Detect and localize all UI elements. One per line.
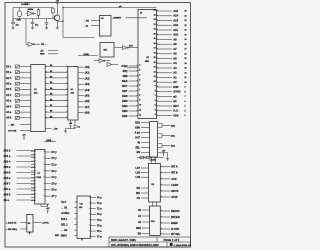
svg-text:(D2): (D2) bbox=[171, 145, 175, 147]
wire wire U8 to U10 a bbox=[152, 202, 154, 206]
inverter U1B bbox=[26, 42, 40, 46]
svg-text:12: 12 bbox=[154, 71, 156, 73]
svg-text:A8: A8 bbox=[173, 42, 177, 46]
svg-text:6: 6 bbox=[185, 101, 186, 103]
svg-text:22: 22 bbox=[185, 25, 187, 27]
svg-text:A1 2: A1 2 bbox=[6, 94, 12, 97]
buffer U4 left pins bbox=[135, 122, 150, 155]
svg-text:17: 17 bbox=[185, 49, 187, 51]
svg-text:A14: A14 bbox=[173, 14, 178, 18]
svg-text:AD8 5: AD8 5 bbox=[4, 193, 11, 196]
svg-text:← 5M̅: ← 5M̅ bbox=[8, 123, 14, 126]
svg-text:DB0: DB0 bbox=[135, 126, 140, 129]
svg-text:B1: B1 bbox=[50, 71, 52, 73]
svg-text:A2: A2 bbox=[173, 71, 177, 75]
capacitor C3 bbox=[45, 19, 49, 26]
svg-text:DISK LEGACY / 1984: DISK LEGACY / 1984 bbox=[111, 239, 136, 242]
svg-text:13: 13 bbox=[185, 68, 187, 70]
svg-text:18: 18 bbox=[185, 44, 187, 46]
svg-text:AD1 a: AD1 a bbox=[4, 155, 11, 158]
svg-text:20: 20 bbox=[154, 33, 156, 35]
svg-text:13: 13 bbox=[154, 67, 156, 69]
svg-text:STEP: STEP bbox=[171, 196, 178, 199]
svg-text:A6: A6 bbox=[173, 52, 177, 56]
wire U9 in row1 bbox=[21, 222, 27, 224]
svg-text:EN: EN bbox=[137, 151, 141, 154]
svg-text:(14M): (14M) bbox=[84, 53, 90, 56]
CPU U2 bbox=[138, 10, 157, 119]
decoder U11 right output pins bbox=[90, 196, 103, 238]
svg-text:(7M): (7M) bbox=[17, 20, 21, 22]
svg-text:A2 a: A2 a bbox=[6, 100, 12, 103]
ground Q1 emitter bbox=[56, 23, 59, 30]
svg-text:DB5: DB5 bbox=[122, 99, 128, 103]
svg-text:2: 2 bbox=[139, 65, 140, 67]
svg-text:20: 20 bbox=[185, 34, 187, 36]
input buffer cell 9 bbox=[15, 116, 19, 119]
buffer U6 74ALS244 bbox=[68, 66, 78, 120]
svg-text:← G1: ← G1 bbox=[61, 207, 68, 210]
svg-text:LD5: LD5 bbox=[135, 176, 140, 179]
wire U7 gnd wire bbox=[41, 204, 48, 207]
ground U9 bbox=[28, 232, 31, 234]
svg-text:Y3 p: Y3 p bbox=[97, 213, 103, 216]
svg-text:← G2: ← G2 bbox=[61, 229, 68, 232]
wire wire U8 top2 bbox=[155, 158, 157, 164]
svg-text:A15: A15 bbox=[173, 9, 178, 13]
svg-text:11: 11 bbox=[185, 77, 187, 79]
svg-text:6: 6 bbox=[155, 100, 156, 102]
svg-text:A4: A4 bbox=[173, 61, 177, 65]
connector J1 bbox=[100, 16, 112, 37]
wire U9 gnd pin bbox=[29, 232, 31, 234]
svg-text:IN: IN bbox=[138, 141, 141, 144]
wire U6 gnd wire bbox=[66, 127, 76, 128]
wire ctl row2 bbox=[20, 130, 31, 132]
decoder U10 left pins bbox=[136, 209, 149, 236]
svg-text:←RS: ←RS bbox=[84, 21, 89, 23]
svg-text:B9: B9 bbox=[50, 116, 52, 118]
wire U9 in row2 bbox=[21, 228, 27, 230]
svg-text:A13: A13 bbox=[173, 18, 178, 22]
svg-text:© 1984 APEX CO: © 1984 APEX CO bbox=[174, 244, 192, 247]
svg-text:DB1: DB1 bbox=[135, 122, 140, 125]
svg-text:D0 1: D0 1 bbox=[6, 65, 12, 68]
svg-text:+ DATA IN: + DATA IN bbox=[6, 221, 17, 224]
svg-text:LD7: LD7 bbox=[135, 167, 140, 170]
svg-text:B3: B3 bbox=[50, 82, 52, 84]
svg-text:A3 4: A3 4 bbox=[6, 105, 12, 108]
power +5V pullups bbox=[162, 151, 166, 157]
svg-text:U11: U11 bbox=[80, 204, 83, 206]
svg-text:22: 22 bbox=[154, 24, 156, 26]
svg-text:RES: RES bbox=[122, 79, 128, 83]
wire inverter U1B input vertical bbox=[25, 19, 27, 45]
wire input row 4 bbox=[20, 88, 31, 90]
svg-text:7: 7 bbox=[185, 96, 186, 98]
ground U6 bbox=[64, 129, 67, 133]
svg-text:18: 18 bbox=[154, 43, 156, 45]
svg-text:B5: B5 bbox=[50, 94, 52, 96]
svg-text:GND: GND bbox=[40, 54, 45, 56]
wire osc mid bbox=[13, 18, 44, 20]
svg-text:Y0 a: Y0 a bbox=[97, 196, 103, 199]
svg-text:DB2: DB2 bbox=[122, 114, 128, 118]
wire osc top bbox=[13, 7, 53, 9]
wire wire sync out bbox=[127, 67, 138, 69]
trimmer capacitor CT1 bbox=[26, 2, 30, 5]
svg-text:(A6): (A6) bbox=[85, 100, 90, 103]
svg-text:A φ2: A φ2 bbox=[135, 131, 141, 134]
ROM U7 left pin stubs bbox=[31, 150, 36, 201]
wire U5 enable out bbox=[45, 128, 51, 130]
svg-text:6502: 6502 bbox=[145, 61, 149, 63]
wire wire pullup row bbox=[137, 157, 164, 159]
wire wire U4 gnd bbox=[158, 153, 168, 156]
wire Q1 emitter tap bbox=[57, 20, 63, 22]
resistor R4 pullup bbox=[146, 156, 150, 159]
gate U6B bbox=[94, 59, 110, 63]
svg-text:9: 9 bbox=[139, 100, 140, 102]
svg-text:(WT)EN: (WT)EN bbox=[171, 216, 180, 219]
svg-text:7: 7 bbox=[155, 95, 156, 97]
svg-text:D3 a: D3 a bbox=[6, 83, 12, 86]
svg-text:RD: RD bbox=[137, 187, 141, 190]
inverter U1A bbox=[26, 11, 36, 16]
ROM U7 bbox=[35, 150, 45, 205]
svg-text:VSS: VSS bbox=[173, 113, 179, 117]
svg-text:3: 3 bbox=[139, 70, 140, 72]
svg-text:19: 19 bbox=[185, 39, 187, 41]
svg-text:24: 24 bbox=[154, 13, 156, 16]
svg-text:ROM: ROM bbox=[37, 177, 42, 179]
svg-text:4: 4 bbox=[155, 108, 156, 111]
svg-text:D5 y: D5 y bbox=[52, 182, 58, 185]
svg-text:R/W: R/W bbox=[173, 85, 179, 89]
input buffer cell 8 bbox=[15, 111, 19, 114]
resistor R1 bbox=[37, 8, 40, 19]
svg-text:B8: B8 bbox=[50, 111, 52, 113]
svg-text:138: 138 bbox=[79, 207, 82, 209]
wire input row 9 bbox=[20, 117, 31, 119]
svg-text:19: 19 bbox=[154, 38, 156, 40]
svg-text:CE a: CE a bbox=[4, 199, 10, 202]
wire input row 7 bbox=[20, 105, 31, 107]
gate U6C bbox=[107, 62, 118, 66]
svg-text:A11: A11 bbox=[173, 28, 178, 32]
wire input row 1 bbox=[20, 71, 31, 73]
svg-text:SEL: SEL bbox=[135, 146, 140, 149]
svg-text:21: 21 bbox=[185, 30, 187, 32]
svg-text:φ2: φ2 bbox=[173, 94, 177, 98]
junction dot 2 bbox=[62, 21, 63, 22]
buffer U5 74LS244 bbox=[31, 65, 45, 132]
wire clock line 7M to U2 bbox=[63, 7, 157, 9]
svg-text:A5: A5 bbox=[173, 56, 177, 60]
svg-text:WR: WR bbox=[136, 192, 140, 195]
CPU U2 left pins bbox=[122, 64, 141, 118]
svg-text:D3 y: D3 y bbox=[52, 170, 58, 173]
junction dot bbox=[62, 7, 63, 8]
svg-text:(A2): (A2) bbox=[85, 77, 90, 80]
svg-text:6: 6 bbox=[139, 85, 140, 87]
svg-text:U9: U9 bbox=[28, 223, 30, 225]
wire wire +RESET bbox=[126, 17, 148, 19]
input buffer cell 4 bbox=[15, 88, 19, 91]
svg-text:Y4 a: Y4 a bbox=[97, 219, 103, 222]
svg-text:REF →: REF → bbox=[55, 235, 62, 237]
svg-text:D4 y: D4 y bbox=[52, 176, 58, 179]
svg-text:S.O.: S.O. bbox=[173, 109, 179, 113]
svg-text:Y2 a: Y2 a bbox=[97, 208, 103, 211]
gate U9 bbox=[27, 214, 33, 232]
svg-text:4: 4 bbox=[185, 109, 186, 112]
timer U3 bbox=[100, 43, 114, 58]
svg-text:8: 8 bbox=[155, 90, 156, 92]
ROM U7 left labels and wires bbox=[4, 149, 35, 202]
wire input row 5 bbox=[20, 94, 31, 96]
wire osc left vertical bbox=[12, 8, 14, 23]
svg-text:NMI: NMI bbox=[123, 74, 128, 78]
svg-text:A5 6: A5 6 bbox=[6, 117, 12, 120]
svg-text:SYNC: SYNC bbox=[173, 90, 181, 94]
buffer U4 bbox=[150, 122, 158, 157]
CPU U2 right pins A15-A0 and control bbox=[154, 9, 187, 118]
svg-text:INT A: INT A bbox=[171, 166, 177, 169]
svg-text:AD5 a: AD5 a bbox=[4, 177, 11, 180]
wire osc left vert2 bbox=[12, 19, 14, 23]
capacitor C2 bbox=[31, 19, 35, 26]
svg-text:B2: B2 bbox=[50, 77, 52, 79]
svg-text:A3: A3 bbox=[173, 66, 177, 70]
input buffer cell 2 bbox=[15, 76, 19, 79]
svg-text:11: 11 bbox=[139, 110, 141, 112]
svg-text:8: 8 bbox=[139, 95, 140, 97]
svg-text:DB7: DB7 bbox=[122, 89, 128, 93]
svg-text:(A0): (A0) bbox=[85, 66, 90, 69]
wire base wire bbox=[44, 18, 55, 20]
svg-text:IRQ: IRQ bbox=[123, 69, 128, 73]
svg-text:B6: B6 bbox=[50, 99, 52, 101]
wire wire 7M drop bbox=[63, 8, 95, 38]
svg-text:A12: A12 bbox=[173, 23, 178, 27]
svg-text:SEL 2: SEL 2 bbox=[61, 223, 68, 226]
svg-text:IO STB: IO STB bbox=[171, 228, 179, 231]
power +5V U6 bbox=[69, 123, 73, 129]
wires U5 to U6 rows bbox=[45, 65, 68, 118]
svg-text:DB4: DB4 bbox=[122, 104, 128, 108]
svg-text:DM 5: DM 5 bbox=[61, 235, 67, 238]
svg-text:Y1 p: Y1 p bbox=[97, 202, 103, 205]
wire stub +WRITE bbox=[48, 50, 58, 52]
wire stub +READ bbox=[48, 53, 58, 55]
wire wire 14M2 line bbox=[44, 141, 56, 143]
resistor R3 pullup bbox=[140, 156, 144, 159]
wire input row 6 bbox=[20, 100, 31, 102]
svg-text:←IQ: ←IQ bbox=[84, 25, 89, 27]
wire U11 gnd stub bbox=[81, 238, 83, 240]
input buffer cell 1 bbox=[15, 71, 19, 74]
decoder U10 bbox=[150, 206, 161, 235]
wire wire U8 to U10 b bbox=[156, 202, 158, 206]
svg-text:D2 4: D2 4 bbox=[6, 77, 12, 80]
svg-text:5: 5 bbox=[139, 80, 140, 82]
svg-text:AD2 4: AD2 4 bbox=[4, 160, 11, 163]
svg-text:14: 14 bbox=[185, 62, 187, 65]
wire input row 0 bbox=[20, 66, 31, 68]
svg-text:AD7 a: AD7 a bbox=[4, 188, 11, 191]
svg-text:17: 17 bbox=[154, 48, 156, 50]
svg-text:B4: B4 bbox=[50, 87, 52, 90]
svg-text:10: 10 bbox=[185, 82, 187, 84]
input buffer cell 6 bbox=[15, 99, 19, 102]
svg-text:9: 9 bbox=[185, 87, 186, 89]
wire ctl row1 bbox=[20, 124, 31, 126]
latch U8 right pins bbox=[160, 166, 178, 199]
svg-text:5: 5 bbox=[185, 106, 186, 108]
svg-text:11: 11 bbox=[154, 76, 156, 78]
decoder U11 left pins bbox=[61, 201, 77, 238]
svg-text:Ya 5: Ya 5 bbox=[61, 201, 66, 204]
wire input row 2 bbox=[20, 77, 31, 79]
input labels column D0-A5 bbox=[6, 65, 12, 119]
svg-text:24: 24 bbox=[185, 14, 187, 17]
power +5V left bbox=[22, 134, 26, 140]
svg-text:D7 y: D7 y bbox=[52, 195, 58, 198]
svg-text:16: 16 bbox=[185, 53, 187, 55]
svg-text:DB6: DB6 bbox=[122, 94, 128, 98]
svg-text:D1 a: D1 a bbox=[6, 71, 12, 74]
transistor Q1 bbox=[54, 15, 60, 23]
svg-text:25: 25 bbox=[154, 10, 156, 12]
svg-text:EN: EN bbox=[138, 233, 142, 236]
svg-text:(A3): (A3) bbox=[85, 83, 90, 86]
svg-text:(14M) →: (14M) → bbox=[46, 139, 54, 142]
svg-text:A1: A1 bbox=[173, 75, 177, 79]
ground osc C1 bbox=[12, 26, 15, 29]
svg-text:CPU, BUFFERS, ROM & DECODER LO: CPU, BUFFERS, ROM & DECODER LOGIC bbox=[111, 244, 159, 247]
wire wire 14M label line bbox=[78, 55, 98, 57]
wire wire J1 down bbox=[100, 36, 102, 38]
svg-text:3: 3 bbox=[155, 114, 156, 116]
wire U9 out bbox=[33, 222, 42, 224]
ground U4 bbox=[166, 155, 169, 160]
resistor R5 base bbox=[52, 8, 55, 19]
svg-text:12: 12 bbox=[185, 72, 187, 74]
svg-text:INT B: INT B bbox=[171, 172, 178, 175]
power +5V U9 bbox=[46, 208, 50, 214]
input buffer cell 0 bbox=[15, 65, 19, 68]
decoder U11 74LS138 bbox=[77, 196, 91, 238]
buffer U4 right pin loops bbox=[158, 124, 170, 148]
svg-text:F.DRV: F.DRV bbox=[171, 184, 178, 187]
input buffer cell 3 bbox=[15, 82, 19, 85]
svg-text:25: 25 bbox=[185, 11, 187, 13]
svg-text:LD6: LD6 bbox=[135, 172, 140, 175]
gate U6A bbox=[114, 46, 138, 50]
svg-text:D6 y: D6 y bbox=[52, 189, 58, 192]
svg-text:A10: A10 bbox=[173, 33, 178, 37]
svg-text:(D0): (D0) bbox=[171, 125, 175, 127]
svg-text:CPU DB: CPU DB bbox=[8, 130, 17, 132]
svg-text:A4 a: A4 a bbox=[6, 111, 12, 114]
svg-text:10: 10 bbox=[154, 81, 156, 83]
svg-text:8: 8 bbox=[185, 91, 186, 93]
svg-text:AD4 5: AD4 5 bbox=[4, 171, 11, 174]
svg-text:AD3 a: AD3 a bbox=[4, 166, 11, 169]
svg-text:15: 15 bbox=[185, 58, 187, 60]
svg-text:AD0 2: AD0 2 bbox=[4, 149, 11, 152]
svg-text:12: 12 bbox=[139, 115, 141, 117]
svg-text:9: 9 bbox=[155, 86, 156, 88]
latch U8 left pins bbox=[135, 167, 148, 200]
svg-text:4: 4 bbox=[139, 74, 140, 77]
input buffer cell 7 bbox=[15, 105, 19, 108]
logo square bbox=[170, 243, 173, 246]
svg-text:23: 23 bbox=[154, 19, 156, 21]
capacitor C1 bbox=[11, 22, 15, 26]
svg-text:(A1): (A1) bbox=[85, 72, 90, 75]
svg-text:+5 MHz: +5 MHz bbox=[61, 212, 70, 215]
svg-text:WT SEL: WT SEL bbox=[171, 233, 181, 236]
svg-text:7: 7 bbox=[139, 90, 140, 92]
latch U8 bbox=[149, 163, 161, 202]
svg-text:23: 23 bbox=[185, 20, 187, 22]
svg-text:(D1): (D1) bbox=[171, 135, 175, 137]
svg-text:←EN: ←EN bbox=[53, 129, 58, 131]
svg-text:+RESET: +RESET bbox=[113, 18, 122, 20]
svg-text:PAGE 1 of 2: PAGE 1 of 2 bbox=[164, 238, 180, 242]
svg-text:(A4): (A4) bbox=[85, 89, 90, 92]
svg-text:A7: A7 bbox=[173, 47, 177, 51]
svg-text:15: 15 bbox=[154, 57, 156, 59]
svg-text:40: 40 bbox=[140, 12, 142, 15]
svg-text:OUT: OUT bbox=[135, 136, 141, 139]
svg-text:D1 y: D1 y bbox=[52, 157, 58, 160]
svg-text:74S04: 74S04 bbox=[28, 8, 34, 11]
svg-text:A9: A9 bbox=[173, 37, 177, 41]
svg-text:Y7 p: Y7 p bbox=[97, 236, 103, 239]
wire U6 vcc pin bbox=[70, 120, 72, 124]
ground U7 bbox=[46, 204, 49, 207]
svg-text:RDY: RDY bbox=[122, 84, 128, 88]
svg-text:PHI a: PHI a bbox=[61, 218, 68, 221]
svg-text:D0 y: D0 y bbox=[52, 151, 58, 154]
svg-text:MOTO: MOTO bbox=[171, 190, 178, 193]
capacitor C4 bbox=[73, 126, 81, 129]
svg-text:14: 14 bbox=[154, 61, 156, 64]
svg-text:RdEN: RdEN bbox=[171, 222, 178, 225]
svg-text:10: 10 bbox=[139, 105, 141, 107]
svg-text:16: 16 bbox=[154, 52, 156, 54]
ROM U7 right data pins bbox=[44, 151, 57, 198]
wire input row 8 bbox=[20, 111, 31, 113]
svg-text:DECOD: DECOD bbox=[171, 210, 180, 213]
svg-text:A0: A0 bbox=[173, 80, 177, 84]
svg-text:CS: CS bbox=[137, 197, 141, 200]
ground U11 bbox=[81, 238, 84, 240]
buffer U6 output pins bbox=[78, 66, 90, 115]
svg-text:+ WR REQ: + WR REQ bbox=[6, 229, 17, 231]
svg-text:B7: B7 bbox=[50, 105, 52, 107]
wire wire row1 to J1 bbox=[91, 20, 100, 22]
svg-text:D2 y: D2 y bbox=[52, 164, 58, 167]
svg-text:ACK: ACK bbox=[171, 178, 176, 181]
ground C3 bbox=[45, 26, 48, 29]
svg-text:3: 3 bbox=[185, 115, 186, 117]
svg-text:Y6 a: Y6 a bbox=[97, 230, 103, 233]
ground osc C2 bbox=[31, 26, 34, 29]
